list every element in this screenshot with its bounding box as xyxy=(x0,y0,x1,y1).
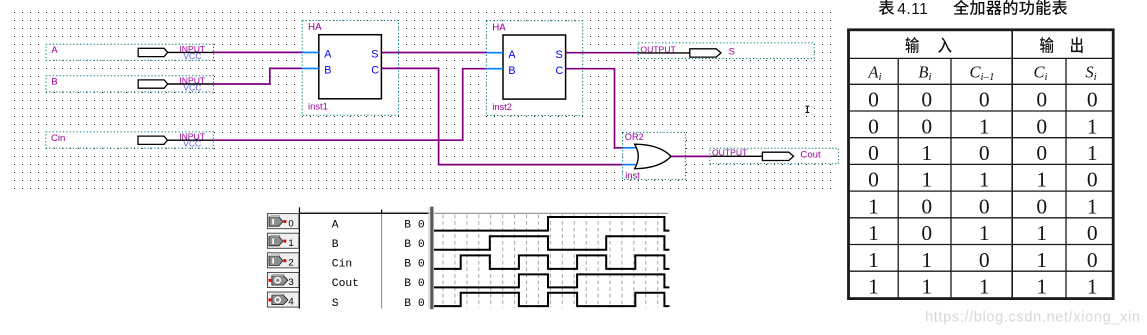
output pin Cout xyxy=(710,148,839,164)
svg-text:1: 1 xyxy=(1036,168,1047,192)
wire inst2.C to OR2 upper input xyxy=(565,69,622,148)
waveform trace S xyxy=(434,293,669,306)
svg-text:inst: inst xyxy=(625,170,640,181)
svg-text:1: 1 xyxy=(979,275,990,299)
svg-text:B 0: B 0 xyxy=(404,259,425,271)
wire inst2.S to output pin S xyxy=(565,52,638,54)
truth table variable headers xyxy=(867,62,1096,83)
input pin Cin xyxy=(46,132,214,149)
svg-text:2: 2 xyxy=(288,258,293,269)
svg-text:S: S xyxy=(729,46,735,57)
half-adder inst2 (HA) xyxy=(486,21,582,116)
output pin S xyxy=(638,43,814,59)
svg-text:inst2: inst2 xyxy=(492,101,512,112)
svg-text:1: 1 xyxy=(288,238,293,249)
svg-text:0: 0 xyxy=(921,194,932,218)
svg-text:1: 1 xyxy=(979,221,990,245)
svg-text:A: A xyxy=(324,49,332,61)
svg-text:C: C xyxy=(371,65,379,77)
svg-text:1: 1 xyxy=(1087,141,1098,165)
svg-text:0: 0 xyxy=(979,194,990,218)
svg-text:OR2: OR2 xyxy=(625,132,644,142)
svg-text:VCC: VCC xyxy=(183,51,201,61)
svg-text:Cout: Cout xyxy=(800,150,821,161)
truth table header 输入 / 输出 xyxy=(905,37,1082,53)
svg-text:HA: HA xyxy=(308,22,322,33)
svg-text:A: A xyxy=(508,49,516,61)
wire inst1.S to inst2.A xyxy=(381,52,486,54)
truth table grid xyxy=(849,30,1114,299)
svg-text:0: 0 xyxy=(868,168,879,192)
svg-text:Cout: Cout xyxy=(332,278,359,290)
wire OR2 output to output pin Cout xyxy=(671,155,710,157)
svg-text:1: 1 xyxy=(868,221,879,245)
svg-text:HA: HA xyxy=(492,22,506,33)
svg-text:1: 1 xyxy=(868,275,879,299)
svg-text:1: 1 xyxy=(868,248,879,272)
svg-text:1: 1 xyxy=(868,194,879,218)
svg-text:0: 0 xyxy=(1036,194,1047,218)
svg-text:1: 1 xyxy=(921,248,932,272)
svg-text:OUTPUT: OUTPUT xyxy=(712,148,748,158)
waveform row 1: signal B xyxy=(267,233,424,251)
svg-text:0: 0 xyxy=(1087,168,1098,192)
waveform row 0: signal A xyxy=(267,214,424,232)
input pin B xyxy=(46,75,214,92)
svg-text:4: 4 xyxy=(288,297,294,308)
svg-text:0: 0 xyxy=(921,221,932,245)
svg-text:0: 0 xyxy=(979,248,990,272)
svg-text:0: 0 xyxy=(868,141,879,165)
svg-text:1: 1 xyxy=(921,275,932,299)
svg-text:1: 1 xyxy=(979,114,990,138)
waveform trace A xyxy=(434,217,669,231)
svg-text:VCC: VCC xyxy=(183,139,201,149)
waveform trace Cin xyxy=(434,255,669,269)
svg-text:B: B xyxy=(324,65,331,77)
svg-text:A: A xyxy=(332,219,339,231)
half-adder inst1 (HA) xyxy=(302,21,398,116)
svg-text:https://blog.csdn.net/xiong_xi: https://blog.csdn.net/xiong_xin xyxy=(925,310,1141,326)
input pin A xyxy=(46,44,214,61)
wire A to inst1 pin A xyxy=(214,51,303,53)
waveform row 2: signal Cin xyxy=(267,253,424,271)
svg-text:0: 0 xyxy=(1087,88,1098,112)
svg-text:0: 0 xyxy=(979,88,990,112)
svg-text:B 0: B 0 xyxy=(404,239,425,251)
waveform row 4: signal S xyxy=(267,292,424,310)
svg-text:3: 3 xyxy=(288,277,293,288)
svg-text:B 0: B 0 xyxy=(404,219,425,231)
svg-text:S: S xyxy=(332,298,339,310)
svg-text:0: 0 xyxy=(1036,88,1047,112)
waveform time gridlines xyxy=(443,215,658,308)
svg-text:1: 1 xyxy=(1036,221,1047,245)
or-gate inst (OR2) xyxy=(623,132,686,181)
svg-text:B: B xyxy=(508,65,515,77)
svg-text:0: 0 xyxy=(1036,114,1047,138)
svg-text:B 0: B 0 xyxy=(404,298,425,310)
svg-text:0: 0 xyxy=(921,88,932,112)
svg-text:0: 0 xyxy=(979,141,990,165)
svg-text:1: 1 xyxy=(921,168,932,192)
svg-text:S: S xyxy=(556,49,563,61)
svg-text:Cin: Cin xyxy=(51,133,65,144)
svg-text:B: B xyxy=(51,77,57,88)
waveform trace B xyxy=(434,236,669,250)
wire B to inst1 pin B xyxy=(214,68,303,84)
svg-text:1: 1 xyxy=(921,141,932,165)
svg-text:inst1: inst1 xyxy=(308,101,328,112)
waveform row 3: signal Cout xyxy=(267,272,424,290)
svg-text:C: C xyxy=(556,65,564,77)
truth table 4.11 title xyxy=(879,0,1067,18)
truth table data xyxy=(868,88,1097,299)
waveform trace Cout xyxy=(434,274,669,287)
waveform panel frame xyxy=(299,207,668,310)
svg-text:1: 1 xyxy=(1087,114,1098,138)
svg-text:S: S xyxy=(371,49,378,61)
wire inst1.C to OR2 lower input xyxy=(381,68,622,164)
svg-text:0: 0 xyxy=(1087,248,1098,272)
svg-text:0: 0 xyxy=(868,114,879,138)
svg-text:Cin: Cin xyxy=(332,259,352,271)
svg-text:1: 1 xyxy=(1036,248,1047,272)
svg-text:0: 0 xyxy=(868,88,879,112)
svg-text:OUTPUT: OUTPUT xyxy=(640,44,676,54)
svg-text:0: 0 xyxy=(1036,141,1047,165)
svg-text:4.11: 4.11 xyxy=(897,1,928,18)
svg-text:1: 1 xyxy=(1087,194,1098,218)
svg-text:0: 0 xyxy=(288,218,293,229)
svg-text:A: A xyxy=(51,45,58,56)
svg-text:0: 0 xyxy=(1087,221,1098,245)
svg-text:1: 1 xyxy=(1087,275,1098,299)
wire Cin to inst2 pin B xyxy=(214,69,487,141)
svg-text:VCC: VCC xyxy=(183,82,201,92)
svg-text:1: 1 xyxy=(979,168,990,192)
text cursor xyxy=(806,106,810,112)
svg-text:B: B xyxy=(332,239,339,251)
svg-text:1: 1 xyxy=(1036,275,1047,299)
svg-text:0: 0 xyxy=(921,114,932,138)
svg-text:B 0: B 0 xyxy=(404,278,425,290)
